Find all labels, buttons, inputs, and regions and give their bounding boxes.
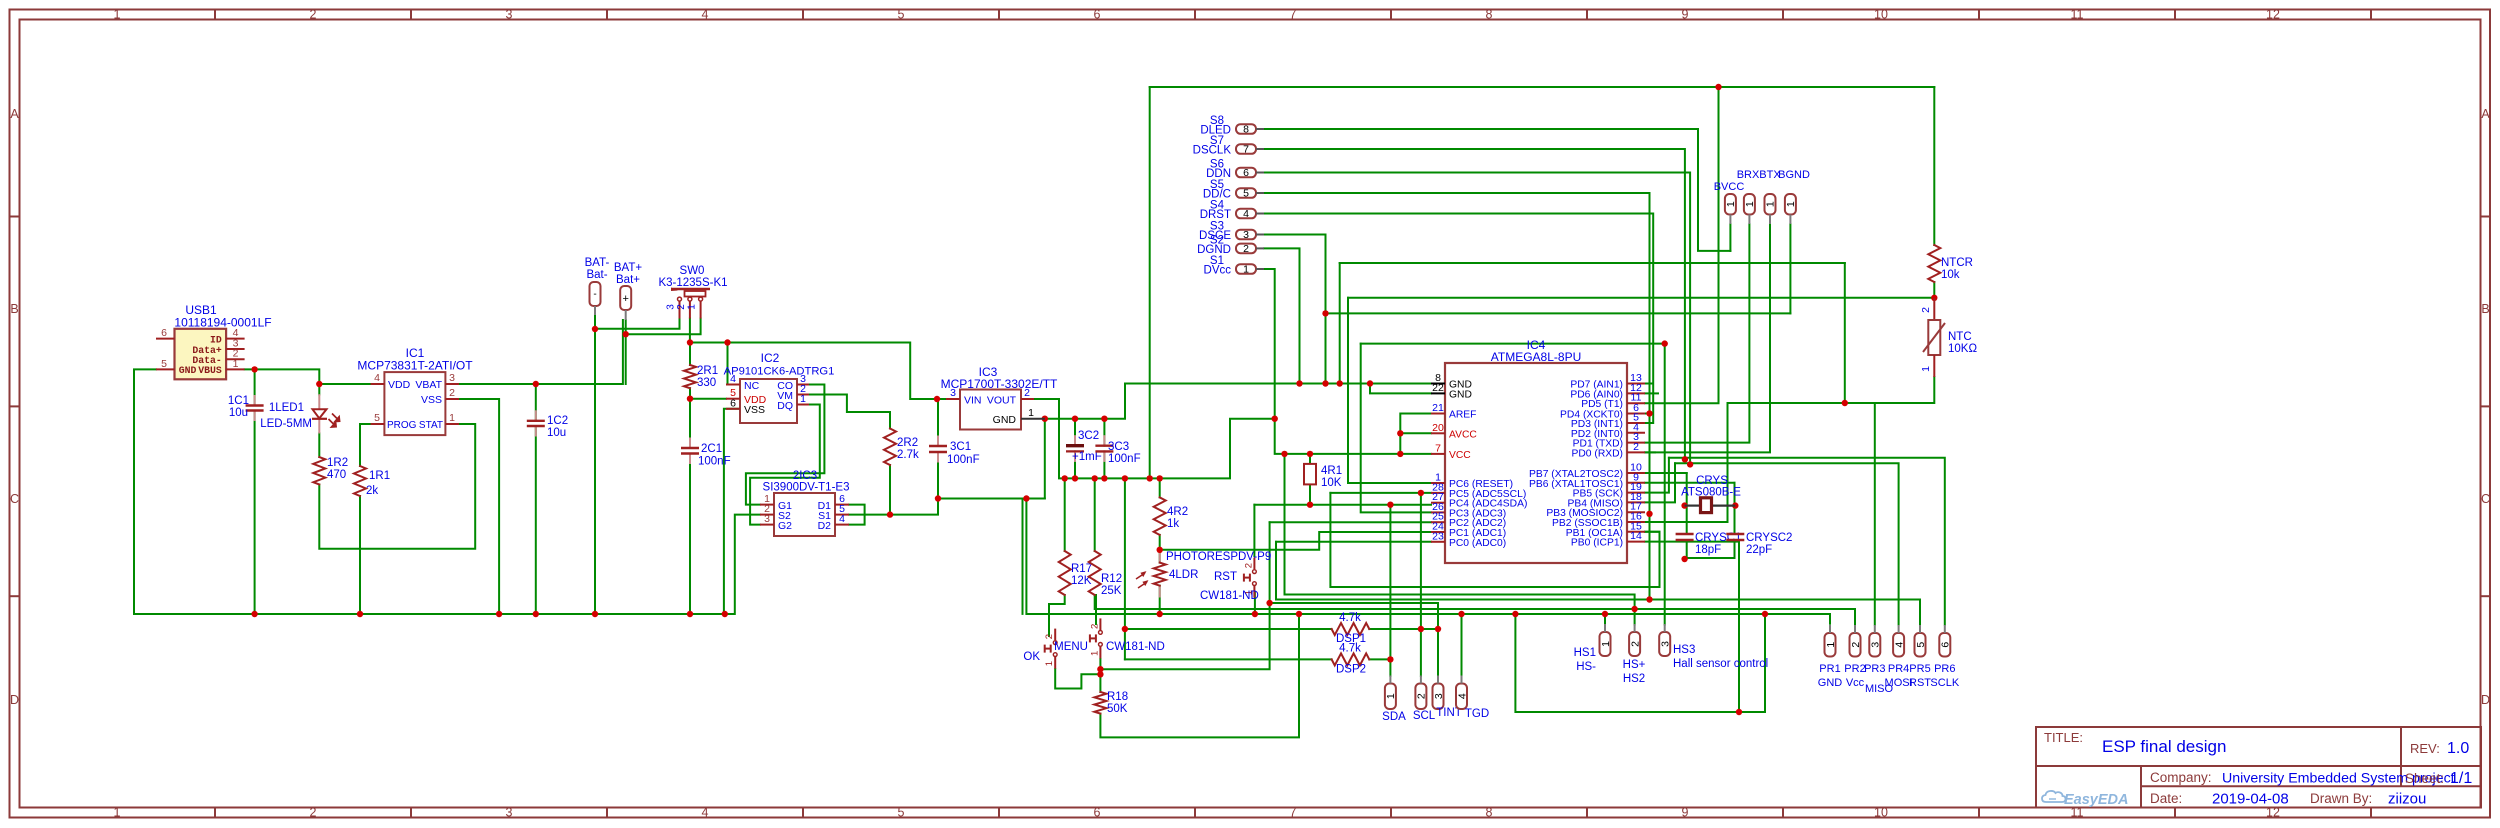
svg-text:SCL: SCL bbox=[1413, 710, 1436, 722]
svg-text:1: 1 bbox=[1920, 366, 1932, 372]
svg-text:CW181-ND: CW181-ND bbox=[1106, 641, 1165, 653]
svg-text:8: 8 bbox=[1486, 8, 1493, 22]
svg-text:2: 2 bbox=[1629, 641, 1641, 647]
connector pin SCL bbox=[1415, 684, 1426, 710]
svg-text:3: 3 bbox=[449, 372, 455, 384]
svg-text:D2: D2 bbox=[818, 520, 832, 532]
svg-text:9: 9 bbox=[1682, 806, 1689, 820]
svg-text:SCLK: SCLK bbox=[1930, 677, 1959, 689]
wire S2 DGND drop bbox=[1264, 248, 1300, 383]
svg-text:D: D bbox=[10, 693, 19, 707]
wire HS3 column bbox=[1664, 344, 1666, 625]
wire GND ring right bbox=[1515, 614, 1765, 712]
svg-text:DRST: DRST bbox=[1200, 209, 1231, 221]
wire VBAT row bbox=[459, 320, 623, 384]
svg-text:1C1: 1C1 bbox=[228, 395, 249, 407]
resistor DSP2 4.7k bbox=[1332, 653, 1370, 665]
wire VDD row IC2 bbox=[690, 398, 726, 400]
svg-text:9: 9 bbox=[1682, 8, 1689, 22]
resistor R18 50K bbox=[1094, 692, 1106, 714]
svg-text:7: 7 bbox=[1290, 8, 1297, 22]
svg-text:2C1: 2C1 bbox=[701, 443, 722, 455]
svg-text:R18: R18 bbox=[1107, 691, 1128, 703]
svg-text:6: 6 bbox=[1094, 8, 1101, 22]
wire BGND drop2 bbox=[1789, 224, 1791, 313]
svg-text:REV:: REV: bbox=[2410, 741, 2440, 756]
svg-text:PR6: PR6 bbox=[1934, 663, 1955, 675]
svg-text:1: 1 bbox=[1600, 641, 1612, 647]
wire RST bottom to rail bbox=[1254, 592, 1256, 614]
wire GND pin22 jog bbox=[1370, 384, 1431, 394]
wire PC5 row to rowA bbox=[1330, 492, 1431, 494]
resistor 1R2 470 bbox=[313, 457, 325, 485]
resistor 2R2 2.7k bbox=[884, 429, 896, 466]
svg-text:D: D bbox=[2481, 693, 2490, 707]
svg-text:10k: 10k bbox=[1941, 269, 1960, 281]
wire row D 609 from R12/MENU bbox=[1095, 595, 1855, 609]
LDR pink leads bbox=[1159, 552, 1161, 563]
svg-text:1: 1 bbox=[800, 393, 806, 405]
wire DVcc column VCC row bbox=[1264, 269, 1431, 454]
svg-text:DVcc: DVcc bbox=[1204, 265, 1232, 277]
wire S1 row bbox=[849, 499, 938, 515]
wire 2C1 column bbox=[689, 399, 691, 448]
resistor R17 12K bbox=[1059, 551, 1071, 595]
wire row 603 TINT bbox=[1270, 603, 1438, 676]
wire NTC tap row bbox=[1348, 297, 1934, 299]
connector pin HS3 bbox=[1659, 632, 1670, 656]
svg-text:4: 4 bbox=[839, 513, 845, 525]
svg-text:MISO: MISO bbox=[1865, 683, 1894, 695]
svg-text:5: 5 bbox=[374, 412, 380, 424]
EasyEDA logo bbox=[2042, 791, 2066, 802]
connector pin TGD bbox=[1456, 684, 1467, 710]
svg-text:1R2: 1R2 bbox=[327, 457, 348, 469]
resistor 4R1 10K bbox=[1304, 464, 1316, 485]
svg-text:1: 1 bbox=[449, 412, 455, 424]
connector pin S2 DGND bbox=[1236, 244, 1256, 254]
svg-text:HS1: HS1 bbox=[1574, 647, 1596, 659]
svg-text:SW0: SW0 bbox=[680, 265, 705, 277]
wire 1C2 column bbox=[535, 384, 537, 421]
wire NTC tap to PC6 bbox=[1348, 298, 1431, 483]
wire IC3 GND row bbox=[1045, 384, 1125, 419]
connector pin PR4 bbox=[1893, 633, 1904, 657]
svg-text:2019-04-08: 2019-04-08 bbox=[2212, 791, 2289, 808]
svg-text:10u: 10u bbox=[229, 407, 248, 419]
svg-text:1R1: 1R1 bbox=[369, 470, 390, 482]
wire HS3 row 343 bbox=[1361, 343, 1665, 345]
resistor DSP1 4.7k bbox=[1332, 623, 1370, 635]
wire drop 1022 to rail bbox=[1022, 499, 1024, 614]
svg-text:4: 4 bbox=[1456, 693, 1468, 699]
svg-text:B: B bbox=[2481, 302, 2489, 316]
wire PB6 to crystal right bbox=[1645, 482, 1735, 484]
svg-text:100nF: 100nF bbox=[698, 456, 731, 468]
svg-text:6: 6 bbox=[1094, 806, 1101, 820]
svg-text:3C3: 3C3 bbox=[1108, 441, 1129, 453]
svg-text:VIN: VIN bbox=[964, 395, 982, 407]
wire LED to 1R2 to STAT bbox=[318, 433, 320, 457]
connector pin TINT bbox=[1433, 684, 1444, 710]
svg-text:470: 470 bbox=[327, 469, 346, 481]
svg-text:2: 2 bbox=[1089, 624, 1100, 629]
wire SDA column bbox=[1389, 505, 1391, 676]
wire LDR row to PC1 bbox=[1160, 532, 1431, 550]
connector pin S6 DDN bbox=[1236, 168, 1256, 178]
svg-text:1: 1 bbox=[687, 304, 698, 310]
svg-text:R17: R17 bbox=[1071, 563, 1092, 575]
wire PB1 stub wire bbox=[1645, 531, 1660, 533]
wire PD0 stub wire bbox=[1645, 451, 1655, 453]
wire R18 bottom return bbox=[1100, 614, 1299, 737]
svg-text:4.7k: 4.7k bbox=[1339, 612, 1361, 624]
svg-text:MENU: MENU bbox=[1054, 641, 1088, 653]
svg-text:1: 1 bbox=[1785, 201, 1797, 207]
wire S5 DD/C wrap to PB3 bbox=[1264, 193, 1650, 514]
svg-text:1: 1 bbox=[1385, 693, 1397, 699]
connector pin HS2 bbox=[1629, 632, 1640, 656]
wire IC2 VSS drop bbox=[724, 409, 740, 614]
photoresistor 4LDR PHOTORESPDV-P9 bbox=[1154, 563, 1166, 586]
svg-text:G2: G2 bbox=[778, 520, 792, 532]
pushbutton MENU CW181-ND bbox=[1099, 618, 1101, 630]
wire PR3 column bbox=[1874, 403, 1876, 625]
svg-text:VDD: VDD bbox=[388, 379, 411, 391]
wire BGND row 313 bbox=[1326, 312, 1791, 314]
pushbutton RST CW181-ND bbox=[1253, 558, 1255, 570]
svg-text:2: 2 bbox=[310, 806, 317, 820]
wire PB0 drop bbox=[1645, 542, 1739, 712]
svg-text:GND: GND bbox=[1818, 677, 1843, 689]
wire IC4 GND row bbox=[1125, 383, 1431, 385]
svg-text:-: - bbox=[593, 289, 596, 300]
svg-text:2: 2 bbox=[1243, 563, 1254, 568]
junction dot PB0 on ring bbox=[1736, 709, 1742, 715]
wire 3C1 column bbox=[937, 399, 939, 446]
resistor R12 25K bbox=[1089, 551, 1101, 595]
connector pin SDA bbox=[1385, 684, 1396, 710]
svg-text:RST: RST bbox=[1909, 677, 1931, 689]
wire LDR column bbox=[1159, 550, 1161, 563]
svg-text:DGND: DGND bbox=[1197, 244, 1231, 256]
svg-text:C: C bbox=[2481, 492, 2490, 506]
svg-text:5: 5 bbox=[1915, 642, 1927, 648]
svg-text:2: 2 bbox=[1243, 243, 1249, 255]
wire BVCC drop bbox=[1729, 224, 1731, 251]
svg-text:BAT+: BAT+ bbox=[614, 262, 643, 274]
capacitor 3C1 100nF bbox=[929, 445, 947, 447]
wire OK bottom path bbox=[1055, 669, 1100, 689]
svg-text:1: 1 bbox=[1243, 264, 1249, 276]
svg-text:1C2: 1C2 bbox=[547, 415, 568, 427]
wire HS1 stub up bbox=[1604, 614, 1606, 625]
svg-text:2IC3: 2IC3 bbox=[793, 470, 817, 482]
wire 4R2 column bbox=[1159, 478, 1161, 497]
svg-text:4: 4 bbox=[730, 373, 736, 385]
svg-text:2: 2 bbox=[1024, 387, 1030, 399]
svg-text:1: 1 bbox=[233, 358, 239, 370]
wire S4 DRST to PD3 bbox=[1264, 214, 1653, 424]
svg-text:VBAT: VBAT bbox=[415, 379, 442, 391]
svg-text:2: 2 bbox=[449, 387, 455, 399]
svg-text:50K: 50K bbox=[1107, 703, 1128, 715]
wire D1 D2 tie bbox=[849, 505, 865, 525]
svg-text:23: 23 bbox=[1432, 530, 1444, 542]
wire PC3 row bbox=[1361, 344, 1431, 513]
capacitor CRYSC1 18pF bbox=[1676, 533, 1694, 535]
wire 2R2 bottom bbox=[889, 465, 891, 515]
wire BTX to PD0 bbox=[1645, 224, 1770, 452]
wire R12 column bbox=[1094, 478, 1096, 551]
svg-text:Bat-: Bat- bbox=[586, 269, 607, 281]
connector pin PR1 bbox=[1825, 633, 1836, 657]
svg-text:NTCR: NTCR bbox=[1941, 257, 1973, 269]
svg-text:CRYS: CRYS bbox=[1696, 475, 1728, 487]
svg-text:4: 4 bbox=[374, 372, 380, 384]
svg-text:1: 1 bbox=[1725, 201, 1737, 207]
svg-text:10: 10 bbox=[1874, 8, 1888, 22]
svg-text:Date:: Date: bbox=[2150, 791, 2182, 806]
connector pin S3 DSCE bbox=[1236, 230, 1256, 240]
wire NTC bottom loop bbox=[1728, 377, 1935, 403]
svg-text:ATMEGA8L-8PU: ATMEGA8L-8PU bbox=[1491, 350, 1581, 364]
svg-text:HS-: HS- bbox=[1576, 661, 1596, 673]
wire crystal caps bottom row bbox=[1687, 540, 1735, 558]
wire BAT- column bbox=[594, 315, 596, 614]
svg-text:1: 1 bbox=[114, 8, 121, 22]
wire row B VCC to HS2 bbox=[1285, 454, 1635, 625]
svg-text:HS+: HS+ bbox=[1623, 659, 1646, 671]
wire PD6 stub wire bbox=[1645, 392, 1658, 394]
svg-text:ziizou: ziizou bbox=[2388, 791, 2426, 808]
svg-text:Company:: Company: bbox=[2150, 770, 2212, 785]
capacitor 3C3 100nF bbox=[1095, 445, 1113, 447]
resistor 1R1 2k bbox=[354, 466, 366, 496]
svg-text:VCC: VCC bbox=[1449, 450, 1471, 461]
svg-text:7: 7 bbox=[1435, 442, 1441, 454]
wire R17 column bbox=[1064, 478, 1066, 551]
svg-text:2: 2 bbox=[1920, 307, 1932, 313]
wire VBUS to LED/VDD bbox=[245, 369, 320, 394]
wire S8 DLED row bbox=[1264, 129, 1730, 251]
wire IC3 GND down bbox=[1044, 419, 1046, 499]
svg-text:Bat+: Bat+ bbox=[616, 274, 640, 286]
svg-text:PR5: PR5 bbox=[1909, 663, 1930, 675]
svg-text:Sheet:: Sheet: bbox=[2405, 771, 2444, 786]
wire PR2 drop bbox=[1854, 609, 1856, 625]
svg-text:NTC: NTC bbox=[1948, 331, 1972, 343]
svg-text:3: 3 bbox=[1870, 642, 1882, 648]
svg-text:20: 20 bbox=[1432, 422, 1444, 434]
wire SW pin3 to BAT- bbox=[595, 319, 680, 329]
svg-text:6: 6 bbox=[161, 327, 167, 339]
wire PD5 row to top loop bbox=[1645, 87, 1719, 403]
junction dots bbox=[251, 366, 257, 372]
wire PB4 to row463 bbox=[1645, 463, 1675, 502]
wire DQ to G2 bbox=[750, 405, 820, 525]
svg-text:2: 2 bbox=[1416, 693, 1428, 699]
svg-text:DQ: DQ bbox=[777, 400, 793, 412]
wire VSS drop bbox=[459, 399, 499, 614]
svg-text:A: A bbox=[10, 107, 19, 121]
svg-text:1k: 1k bbox=[1167, 518, 1179, 530]
svg-text:1: 1 bbox=[1028, 407, 1034, 419]
resistor 4R2 1k bbox=[1154, 497, 1166, 535]
svg-text:AP9101CK6-ADTRG1: AP9101CK6-ADTRG1 bbox=[724, 366, 835, 378]
wire NC drop bbox=[728, 343, 741, 385]
svg-text:4R2: 4R2 bbox=[1167, 506, 1188, 518]
wire NTCR bottom to tap bbox=[1933, 282, 1935, 298]
connector pin PR3 bbox=[1869, 633, 1880, 657]
wire MENU bottom bbox=[1099, 659, 1101, 692]
svg-text:OK: OK bbox=[1023, 651, 1040, 663]
wire 3.3 gnd row 498 bbox=[938, 498, 1045, 500]
wire DSP2 row bbox=[1125, 658, 1332, 660]
svg-text:1.0: 1.0 bbox=[2447, 740, 2469, 757]
svg-text:2.7k: 2.7k bbox=[897, 449, 919, 461]
connector pin S4 DRST bbox=[1236, 209, 1256, 219]
svg-text:DSCLK: DSCLK bbox=[1193, 145, 1232, 157]
wire PB2 wrap up bbox=[1645, 403, 1728, 522]
svg-text:12: 12 bbox=[2266, 8, 2280, 22]
svg-text:7: 7 bbox=[1243, 144, 1249, 156]
svg-text:R12: R12 bbox=[1101, 573, 1122, 585]
LED 1LED1 LED-5MM bbox=[318, 394, 320, 409]
connector pin PR6 bbox=[1939, 633, 1950, 657]
capacitor 1C2 10u bbox=[527, 420, 545, 422]
svg-text:GND: GND bbox=[993, 414, 1017, 426]
svg-text:3: 3 bbox=[764, 513, 770, 525]
svg-text:BRX: BRX bbox=[1737, 169, 1760, 181]
capacitor 1C1 10u bbox=[246, 404, 264, 406]
svg-text:PHOTORESPDV-P9: PHOTORESPDV-P9 bbox=[1166, 551, 1271, 563]
svg-text:10: 10 bbox=[1874, 806, 1888, 820]
svg-text:1: 1 bbox=[114, 806, 121, 820]
svg-text:7: 7 bbox=[1290, 806, 1297, 820]
svg-text:BVCC: BVCC bbox=[1714, 181, 1745, 193]
wire PD7 stub wire bbox=[1645, 383, 1652, 385]
wire row 504 PC4 bbox=[1254, 504, 1431, 506]
wire row C 599 bbox=[1276, 600, 1920, 625]
wire VOUT to 3.3 rail bbox=[1034, 399, 1275, 478]
svg-text:25K: 25K bbox=[1101, 585, 1122, 597]
resistor 2R1 330 bbox=[684, 365, 696, 388]
svg-text:22: 22 bbox=[1432, 382, 1444, 394]
wire SCL column bbox=[1420, 493, 1422, 676]
svg-text:4R1: 4R1 bbox=[1321, 465, 1342, 477]
wire SW pin1 to BAT+ bbox=[626, 319, 701, 335]
connector pin S7 DSCLK bbox=[1236, 144, 1256, 154]
wire PC2 row to MENU bbox=[1270, 521, 1431, 523]
svg-text:C: C bbox=[10, 492, 19, 506]
svg-text:2: 2 bbox=[1044, 634, 1055, 639]
svg-text:2k: 2k bbox=[366, 485, 378, 497]
svg-text:6: 6 bbox=[1243, 167, 1249, 179]
svg-text:3: 3 bbox=[506, 8, 513, 22]
svg-text:Vcc: Vcc bbox=[1846, 677, 1865, 689]
title block bbox=[2036, 727, 2481, 808]
wire row 263 gnd NTC bbox=[1340, 262, 1845, 264]
svg-text:18pF: 18pF bbox=[1695, 544, 1721, 556]
svg-text:10118194-0001LF: 10118194-0001LF bbox=[174, 316, 271, 330]
wire GND bottom rail left bbox=[134, 515, 760, 614]
wire 4R1 leads bbox=[1309, 454, 1311, 464]
pushbutton OK CW181-ND bbox=[1054, 629, 1056, 641]
svg-text:A: A bbox=[2481, 107, 2490, 121]
svg-text:PR1: PR1 bbox=[1819, 663, 1840, 675]
svg-text:11: 11 bbox=[2071, 8, 2084, 22]
svg-text:3: 3 bbox=[666, 304, 677, 310]
svg-text:10KΩ: 10KΩ bbox=[1948, 343, 1977, 355]
wire AREF AVCC tie bbox=[1400, 414, 1431, 454]
wire S6 DDN row bbox=[1264, 173, 1690, 465]
svg-text:2: 2 bbox=[1850, 642, 1862, 648]
svg-text:HS3: HS3 bbox=[1673, 644, 1695, 656]
wire big loop top bbox=[1150, 86, 1935, 88]
svg-text:BGND: BGND bbox=[1778, 169, 1810, 181]
wire VDD branch bbox=[319, 383, 370, 385]
svg-text:4LDR: 4LDR bbox=[1169, 569, 1198, 581]
connector pin PR5 bbox=[1915, 633, 1926, 657]
svg-text:5: 5 bbox=[898, 8, 905, 22]
svg-text:PC0 (ADC0): PC0 (ADC0) bbox=[1449, 538, 1506, 549]
svg-text:4: 4 bbox=[1893, 642, 1905, 648]
svg-text:2: 2 bbox=[310, 8, 317, 22]
svg-text:RST: RST bbox=[1214, 571, 1237, 583]
wire VM to 2R2 bbox=[809, 395, 890, 429]
wire crystal left column bbox=[1686, 473, 1688, 534]
svg-text:2: 2 bbox=[676, 304, 687, 310]
svg-text:1: 1 bbox=[1044, 661, 1055, 666]
svg-text:VBUS: VBUS bbox=[198, 365, 222, 376]
wire S1 DVcc lead bbox=[1256, 268, 1264, 270]
capacitor 3C2 1mF polarized bbox=[1066, 444, 1084, 447]
svg-text:1/1: 1/1 bbox=[2450, 770, 2472, 787]
svg-text:3: 3 bbox=[1660, 641, 1672, 647]
wire S7 DSCLK row bbox=[1264, 149, 1685, 459]
wire BAT+ column bbox=[625, 320, 627, 384]
wire BRX to PD1 bbox=[1645, 224, 1749, 443]
wire row 457 to PR6 bbox=[1669, 458, 1945, 625]
svg-text:PR2: PR2 bbox=[1844, 663, 1865, 675]
svg-text:21: 21 bbox=[1432, 402, 1444, 414]
svg-text:5: 5 bbox=[1243, 188, 1249, 200]
svg-text:ESP final design: ESP final design bbox=[2102, 737, 2226, 756]
wire SW pin2 row to VIN bbox=[689, 319, 691, 343]
wire RST to row504 bbox=[1253, 505, 1255, 556]
svg-text:2: 2 bbox=[1633, 441, 1639, 453]
svg-text:MCP73831T-2ATI/OT: MCP73831T-2ATI/OT bbox=[357, 359, 473, 373]
svg-text:HS2: HS2 bbox=[1623, 673, 1645, 685]
svg-text:3C1: 3C1 bbox=[950, 441, 971, 453]
wire NTCR top column bbox=[1933, 87, 1935, 245]
wire row 463 to PR4 bbox=[1675, 463, 1899, 624]
connector pin S5 DD/C bbox=[1236, 188, 1256, 198]
capacitor CRYSC2 22pF bbox=[1726, 533, 1744, 535]
svg-text:1LED1: 1LED1 bbox=[269, 402, 304, 414]
svg-text:14: 14 bbox=[1630, 530, 1642, 542]
svg-text:PD0 (RXD): PD0 (RXD) bbox=[1572, 448, 1624, 459]
wire PB3 drop to rowC bbox=[1649, 514, 1651, 600]
svg-text:8: 8 bbox=[1243, 124, 1249, 136]
capacitor 2C1 100nF bbox=[681, 447, 699, 449]
svg-text:K3-1235S-K1: K3-1235S-K1 bbox=[658, 277, 727, 289]
svg-text:3: 3 bbox=[1433, 693, 1445, 699]
svg-text:GND: GND bbox=[1449, 389, 1472, 400]
svg-text:100nF: 100nF bbox=[1108, 453, 1141, 465]
wire DSP feed column bbox=[1124, 478, 1126, 659]
